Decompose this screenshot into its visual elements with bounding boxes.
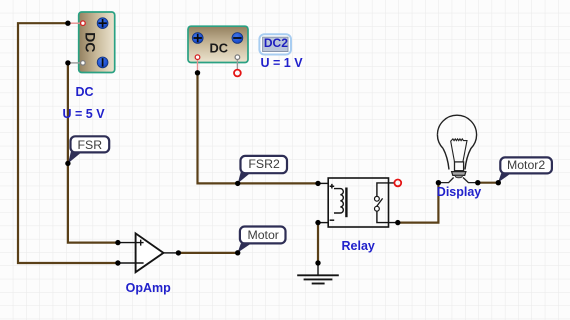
wire from relay switch lower pin to bulb left pin — [398, 183, 439, 223]
relay coil — [334, 189, 343, 213]
svg-text:Motor: Motor — [247, 228, 278, 242]
node tag FSR — [68, 136, 109, 163]
svg-text:U = 1 V: U = 1 V — [261, 56, 304, 70]
svg-text:FSR2: FSR2 — [248, 157, 280, 171]
junction dot op-amp - input — [115, 260, 120, 265]
op-amp U1 triangle — [136, 233, 164, 272]
relay - marking — [330, 219, 335, 221]
wire from DC1 + terminal left and down to op-amp inverting input — [18, 23, 118, 263]
junction dot relay coil - — [315, 220, 320, 225]
svg-text:FSR: FSR — [77, 138, 102, 152]
lamp base nub — [455, 175, 462, 177]
relay switch upper contact and pin to red ring — [377, 183, 394, 197]
junction dot node Motor — [235, 250, 240, 255]
battery DC1 + pin lead — [68, 22, 81, 24]
junction dot ground — [315, 260, 320, 265]
svg-text:DC2: DC2 — [264, 36, 288, 50]
relay switch lower contact and pin — [375, 206, 380, 211]
wire from op-amp output to node Motor — [178, 252, 237, 254]
wire from relay coil - pin down to ground — [317, 223, 319, 263]
battery DC1 + pin terminal circle — [81, 21, 86, 26]
junction dot lamp right pin — [475, 180, 480, 185]
svg-text:Display: Display — [437, 185, 482, 199]
lamp right leg — [463, 178, 478, 183]
lamp left leg — [438, 178, 453, 183]
lamp filament trapezoid with zigzag top — [451, 139, 467, 162]
op-amp non-inverting input stub with + — [118, 240, 144, 246]
battery DC2 body — [188, 26, 248, 62]
relay K1 body — [328, 178, 388, 227]
ground symbol — [297, 263, 339, 284]
junction dot node FSR — [65, 161, 70, 166]
junction dot lamp left pin — [436, 180, 441, 185]
junction dot DC1 - — [65, 60, 70, 65]
battery DC1 - pin lead — [68, 62, 81, 64]
lamp base flare — [452, 172, 466, 176]
node tag Motor2 — [498, 157, 552, 182]
op-amp inverting input stub — [118, 262, 144, 264]
relay coil - pin line — [318, 222, 328, 224]
battery DC2 + pin terminal circle — [195, 55, 200, 60]
relay coil + pin line — [318, 182, 328, 184]
relay unconnected pin marker (red ring) — [394, 180, 401, 187]
junction dot node FSR2 — [235, 181, 240, 186]
svg-text:DC: DC — [76, 85, 94, 99]
relay + marking — [330, 184, 335, 189]
wire from bulb right pin to node Motor2 — [478, 182, 499, 184]
junction dot relay switch lower pin — [395, 220, 400, 225]
battery DC2 unconnected pin marker (red ring) — [234, 70, 241, 77]
battery DC1 (rotated) body — [79, 12, 115, 73]
lamp Display glass — [437, 115, 476, 169]
relay switch blade — [377, 198, 383, 206]
battery DC2 - screw terminal — [232, 33, 243, 44]
junction dot node Motor2 — [496, 180, 501, 185]
battery DC2 + pin lead — [197, 59, 199, 71]
svg-text:DC: DC — [209, 41, 227, 56]
battery DC2 + screw terminal — [192, 33, 203, 44]
svg-text:Relay: Relay — [342, 239, 375, 253]
svg-text:Motor2: Motor2 — [507, 158, 545, 172]
svg-text:OpAmp: OpAmp — [126, 281, 172, 295]
battery DC1 + screw terminal — [97, 18, 108, 29]
wire from DC1 - terminal down through node FSR to op-amp non-inverting input — [68, 63, 118, 243]
junction dot op-amp + input — [115, 240, 120, 245]
wire from DC2 + terminal down and right to relay coil + pin — [198, 73, 319, 184]
junction dot op-amp output — [176, 250, 181, 255]
battery DC1 - screw terminal — [97, 57, 108, 68]
junction dot DC1 + — [65, 21, 70, 26]
svg-text:U = 5 V: U = 5 V — [63, 107, 106, 121]
junction dot relay coil + — [315, 181, 320, 186]
battery DC2 - pin terminal circle — [235, 55, 240, 60]
junction dot DC2 + — [195, 70, 200, 75]
node tag FSR2 — [238, 156, 287, 183]
svg-text:DC: DC — [82, 32, 98, 52]
battery DC2 - pin lead — [236, 59, 238, 71]
op-amp output stub — [163, 252, 178, 254]
battery DC1 - pin terminal circle — [81, 61, 86, 66]
lamp screw cap — [455, 162, 464, 171]
label DC2 (selected name box) — [259, 34, 291, 54]
relay core bar — [345, 188, 347, 218]
node tag Motor — [238, 227, 286, 253]
